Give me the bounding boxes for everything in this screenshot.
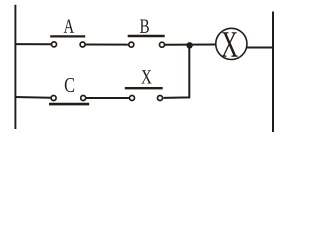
wire: contact B to lamp X <box>165 44 216 46</box>
label B <box>140 20 149 33</box>
lamp / output coil X (circle) <box>216 28 247 59</box>
contact B (normally open switch) <box>128 36 165 47</box>
wire: contact A to contact B <box>85 44 128 46</box>
wire: contact C to contact X <box>86 97 129 99</box>
right power rail <box>272 12 274 133</box>
wire: left rail to contact A <box>15 43 52 45</box>
label X (contact) <box>141 70 151 83</box>
label X inside lamp <box>221 32 237 57</box>
contact X (normally open switch) <box>125 88 163 100</box>
junction node (dot) <box>186 42 192 48</box>
wire: junction down to bottom rung corner <box>163 45 189 98</box>
contact C (normally closed switch) <box>49 96 89 105</box>
label A <box>64 20 74 33</box>
left power rail <box>14 5 16 129</box>
wire: lamp X to right rail <box>247 47 274 49</box>
label C <box>65 78 74 92</box>
contact A (normally open switch) <box>50 36 85 47</box>
wire: left rail to contact C <box>15 96 51 99</box>
